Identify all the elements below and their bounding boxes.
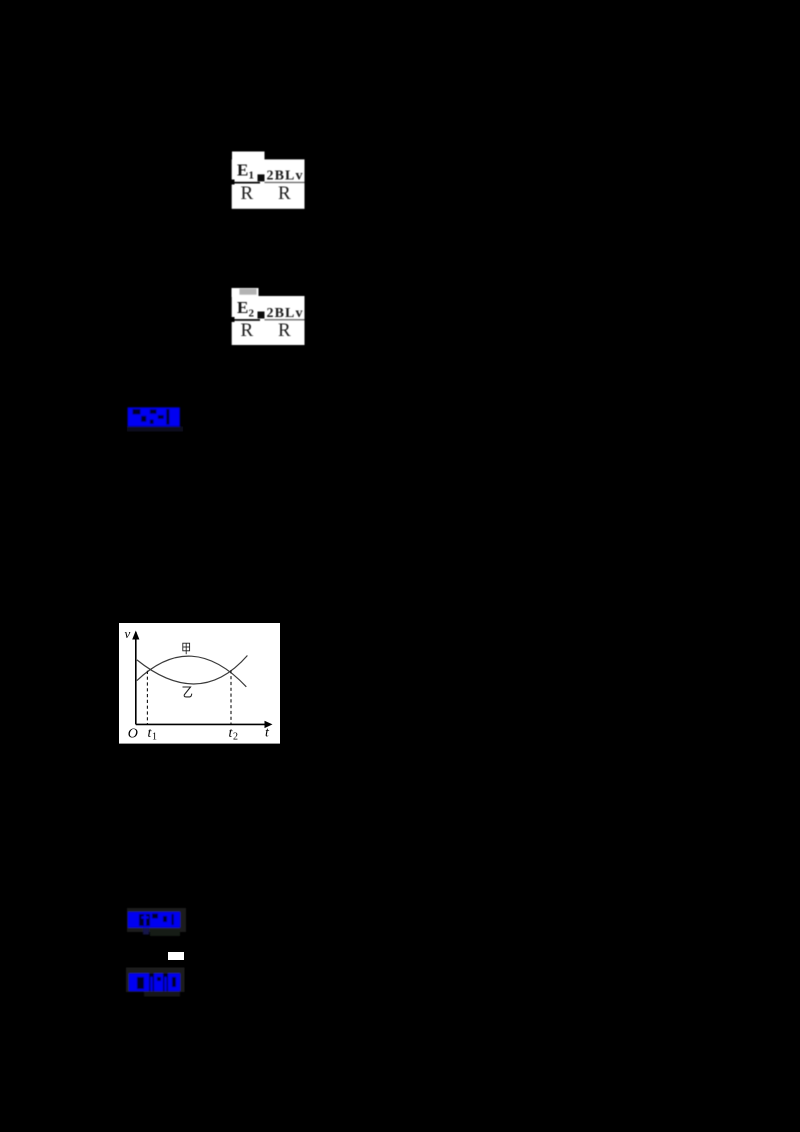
svg-text:1: 1	[249, 170, 255, 182]
svg-text:v: v	[125, 626, 131, 641]
svg-text:O: O	[128, 726, 138, 741]
svg-text:R: R	[278, 183, 291, 204]
svg-text:E: E	[237, 161, 248, 180]
svg-text:1: 1	[152, 732, 157, 743]
svg-text:R: R	[241, 183, 254, 204]
svg-text:2BLv: 2BLv	[267, 306, 303, 321]
svg-text:R: R	[241, 320, 254, 341]
svg-text:E: E	[237, 298, 248, 317]
svg-text:R: R	[278, 320, 291, 341]
svg-text:2: 2	[249, 308, 255, 320]
svg-text:2BLv: 2BLv	[267, 169, 303, 184]
svg-text:2: 2	[233, 732, 238, 743]
